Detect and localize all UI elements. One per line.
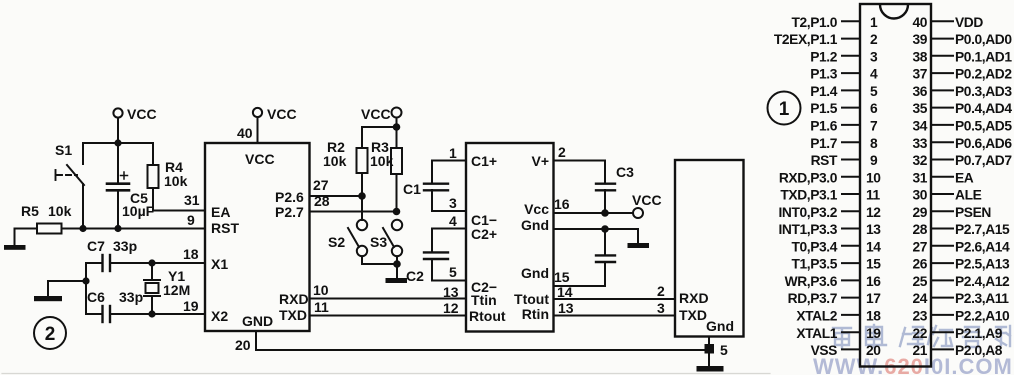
IC2 pin 22 number: [912, 326, 927, 341]
svg-text:5: 5: [720, 342, 728, 358]
IC2 pin 37 name P0.2,AD2: [955, 67, 1012, 82]
svg-text:10: 10: [866, 170, 881, 185]
junction S3 ground: [393, 260, 401, 278]
IC2 pin 8 number: [870, 136, 878, 151]
junction C5/RST rail: [114, 225, 121, 232]
svg-text:15: 15: [866, 257, 881, 272]
IC2 pin 4 lead: [842, 72, 860, 74]
junction R2/P2.6: [358, 192, 366, 200]
svg-text:RST: RST: [811, 153, 838, 168]
IC2 pin 23 lead: [931, 314, 953, 316]
svg-text:28: 28: [314, 193, 330, 209]
connector DB9 box: [675, 160, 744, 337]
ground (MAX232): [628, 243, 650, 248]
svg-text:33p: 33p: [119, 289, 143, 305]
capacitor C6 33p: [86, 289, 143, 322]
svg-text:1: 1: [870, 15, 878, 30]
power VCC node (IC pin 40): [237, 106, 297, 143]
svg-text:9: 9: [187, 212, 195, 228]
wire RXD pin 10 to Ttin 13: [310, 282, 467, 300]
IC2 pin 6 lead: [842, 107, 860, 109]
IC2 pin 26 number: [912, 257, 927, 272]
wire C1- pin 3: [432, 195, 466, 211]
IC2 pin 11 number: [866, 188, 881, 203]
svg-text:Gnd: Gnd: [706, 318, 734, 334]
svg-text:13: 13: [558, 300, 574, 316]
svg-text:2: 2: [45, 324, 56, 345]
IC U1 8051 box: [205, 143, 310, 331]
watermark URL www.620I0I.com: [813, 354, 1013, 375]
svg-text:6: 6: [870, 101, 878, 116]
IC2 pin 18 lead: [842, 314, 860, 316]
wire Gnd pin 15: [554, 269, 606, 286]
resistor R3 10k: [370, 127, 402, 212]
svg-text:V+: V+: [531, 153, 549, 169]
svg-text:PSEN: PSEN: [955, 205, 991, 220]
IC2 pin 37 lead: [931, 72, 953, 74]
svg-text:11: 11: [866, 188, 881, 203]
resistor R5 10k: [21, 203, 72, 234]
IC2 pin 16 number: [866, 274, 881, 289]
svg-text:Gnd: Gnd: [521, 217, 549, 233]
svg-text:18: 18: [866, 309, 881, 324]
svg-text:Vcc: Vcc: [524, 201, 549, 217]
wire EA pin 31: [153, 192, 205, 211]
switch S3: [370, 220, 402, 264]
IC2 pin 39 lead: [931, 38, 953, 40]
wire Gnd: [554, 229, 639, 243]
IC2 pin 26 lead: [931, 262, 953, 264]
wire VCC rail to S1 and R4: [83, 142, 153, 144]
svg-text:P2.5,A13: P2.5,A13: [955, 257, 1010, 272]
IC2 pin 27 lead: [931, 245, 953, 247]
ground (S2/S3): [386, 278, 408, 283]
IC2 pin 10 lead: [842, 176, 860, 178]
svg-text:10µF: 10µF: [122, 203, 155, 219]
svg-text:25: 25: [912, 274, 927, 289]
svg-text:30: 30: [912, 188, 927, 203]
ground (R5): [4, 245, 26, 250]
IC2 pin 25 lead: [931, 279, 953, 281]
IC2 pin 23 name P2.2,A10: [955, 309, 1010, 324]
svg-text:28: 28: [912, 222, 927, 237]
junction S1/RST rail: [79, 225, 86, 232]
IC2 pin 9 lead: [842, 159, 860, 161]
svg-text:RD,P3.7: RD,P3.7: [788, 291, 838, 306]
svg-text:VSS: VSS: [811, 343, 838, 358]
svg-text:VCC: VCC: [361, 106, 391, 122]
node label circle 2: [34, 317, 66, 349]
IC2 pin 29 lead: [931, 210, 953, 212]
svg-text:XTAL2: XTAL2: [796, 309, 837, 324]
svg-text:7: 7: [870, 119, 878, 134]
svg-text:27: 27: [313, 177, 329, 193]
svg-text:14: 14: [557, 284, 573, 300]
IC2 pin 21 lead: [931, 348, 953, 350]
svg-text:T1,P3.5: T1,P3.5: [791, 257, 837, 272]
IC2 pin 20 number: [866, 343, 881, 358]
svg-text:R5: R5: [21, 203, 39, 219]
svg-text:C3: C3: [616, 164, 634, 180]
svg-text:1: 1: [449, 145, 457, 161]
svg-text:11: 11: [314, 299, 329, 315]
svg-text:40: 40: [237, 125, 253, 141]
svg-text:RST: RST: [211, 220, 239, 236]
svg-text:Ttin: Ttin: [471, 292, 497, 308]
svg-text:P0.6,AD6: P0.6,AD6: [955, 136, 1012, 151]
IC2 pin 8 name P1.7: [810, 136, 838, 151]
IC2 pin 35 number: [912, 101, 927, 116]
IC2 pin 3 lead: [842, 55, 860, 57]
IC2 pin 23 number: [912, 309, 927, 324]
power VCC node (pullups): [361, 106, 402, 127]
svg-text:15: 15: [554, 269, 570, 285]
svg-text:C7: C7: [87, 238, 105, 254]
svg-text:Rtin: Rtin: [522, 306, 549, 322]
scan edge artifact bottom: [2, 373, 770, 375]
svg-text:2: 2: [558, 144, 566, 160]
svg-text:P2.7: P2.7: [275, 204, 304, 220]
IC2 pin 15 number: [866, 257, 881, 272]
switch S1: [55, 142, 84, 228]
svg-text:TXD: TXD: [279, 307, 307, 323]
svg-text:17: 17: [866, 291, 881, 306]
IC2 pin 35 lead: [931, 107, 953, 109]
IC2 pin 30 name ALE: [955, 188, 982, 203]
svg-text:13: 13: [443, 284, 459, 300]
svg-text:C1: C1: [403, 181, 421, 197]
svg-text:33p: 33p: [113, 238, 137, 254]
svg-text:12: 12: [443, 300, 459, 316]
svg-text:WR,P3.6: WR,P3.6: [785, 274, 838, 289]
svg-text:GND: GND: [242, 313, 273, 329]
IC2 pin 3 name P1.2: [810, 49, 838, 64]
svg-text:23: 23: [912, 309, 927, 324]
IC2 pin 29 number: [912, 205, 927, 220]
IC2 pin 11 name TXD,P3.1: [780, 188, 837, 203]
svg-text:31: 31: [184, 192, 200, 208]
IC2 pin 1 number: [870, 15, 878, 30]
svg-text:21: 21: [912, 343, 927, 358]
svg-text:3: 3: [449, 195, 457, 211]
svg-text:C2: C2: [406, 268, 424, 284]
IC2 pin 31 lead: [931, 176, 953, 178]
IC2 pin 19 name XTAL1: [796, 326, 837, 341]
junction X1/crystal: [148, 259, 155, 266]
IC2 pin 39 number: [912, 32, 927, 47]
IC2 pin 24 number: [912, 291, 927, 306]
svg-text:P0.2,AD2: P0.2,AD2: [955, 67, 1012, 82]
ground (connector): [697, 366, 724, 372]
IC2 pin 2 lead: [842, 38, 860, 40]
svg-text:S3: S3: [370, 234, 387, 250]
power VCC node (MAX232): [632, 192, 662, 218]
wire P2.7 pin 28: [310, 193, 397, 212]
svg-text:29: 29: [912, 205, 927, 220]
IC2 pin 31 name EA: [955, 170, 974, 185]
IC2 pin 31 number: [912, 170, 927, 185]
svg-text:S1: S1: [55, 142, 72, 158]
svg-text:INT0,P3.2: INT0,P3.2: [778, 205, 837, 220]
wire Rtin 13 to connector TXD 3: [554, 300, 676, 316]
svg-text:P2.6: P2.6: [275, 189, 304, 205]
IC2 pin 6 number: [870, 101, 878, 116]
wire R5 to ground: [15, 229, 38, 247]
wire connector pin 5 ground: [709, 337, 728, 367]
node label circle 1: [768, 92, 801, 125]
IC2 pin 25 number: [912, 274, 927, 289]
svg-text:INT1,P3.3: INT1,P3.3: [778, 222, 837, 237]
wire C2+ pin 4: [432, 213, 466, 229]
svg-text:ALE: ALE: [955, 188, 982, 203]
svg-text:P2.6,A14: P2.6,A14: [955, 239, 1010, 254]
capacitor C5 10uF: [107, 143, 155, 228]
IC2 pin 19 number: [866, 326, 881, 341]
svg-text:5: 5: [870, 84, 878, 99]
IC2 pin 11 lead: [842, 193, 860, 195]
IC2 pin 28 name P2.7,A15: [955, 222, 1010, 237]
svg-text:P0.0,AD0: P0.0,AD0: [955, 32, 1012, 47]
IC2 pin 14 lead: [842, 245, 860, 247]
svg-text:T2,P1.0: T2,P1.0: [791, 15, 837, 30]
svg-text:P2.3,A11: P2.3,A11: [955, 291, 1009, 306]
svg-text:P0.7,AD7: P0.7,AD7: [955, 153, 1012, 168]
IC2 pin 7 lead: [842, 124, 860, 126]
capacitor C4: [596, 229, 615, 286]
IC2 pin 27 name P2.6,A14: [955, 239, 1010, 254]
IC2 pin 13 number: [866, 222, 881, 237]
IC2 pin 7 name P1.6: [810, 119, 838, 134]
IC2 pin 5 name P1.4: [810, 84, 838, 99]
IC2 pin 24 name P2.3,A11: [955, 291, 1009, 306]
IC2 pin 38 number: [912, 49, 927, 64]
IC2 pin 9 name RST: [811, 153, 838, 168]
svg-text:VCC: VCC: [245, 151, 275, 167]
svg-text:EA: EA: [955, 170, 974, 185]
svg-text:T2EX,P1.1: T2EX,P1.1: [774, 32, 838, 47]
svg-text:P2.0,A8: P2.0,A8: [955, 343, 1003, 358]
IC2 pin 33 number: [912, 136, 927, 151]
IC2 pin 36 lead: [931, 89, 953, 91]
svg-text:18: 18: [183, 246, 199, 262]
IC2 pin 28 number: [912, 222, 927, 237]
IC2 pin 10 name RXD,P3.0: [779, 170, 838, 185]
svg-text:35: 35: [912, 101, 927, 116]
svg-text:P0.4,AD4: P0.4,AD4: [955, 101, 1012, 116]
IC2 pin 21 number: [912, 343, 927, 358]
IC2 pin 16 lead: [842, 279, 860, 281]
svg-text:XTAL1: XTAL1: [796, 326, 837, 341]
svg-text:3: 3: [657, 300, 665, 316]
IC2 pin 22 name P2.1,A9: [955, 326, 1003, 341]
wire P2.6 pin 27: [310, 177, 363, 196]
IC2 pin 40 lead: [931, 20, 953, 22]
svg-text:P0.3,AD3: P0.3,AD3: [955, 84, 1012, 99]
switch S2: [328, 199, 367, 264]
watermark chinese characters (pseudo-glyphs): [833, 325, 1010, 348]
IC2 pin 17 name RD,P3.7: [788, 291, 838, 306]
svg-text:VDD: VDD: [955, 15, 983, 30]
wire V+ pin 2: [554, 144, 606, 161]
IC2 pin 17 number: [866, 291, 881, 306]
wire pullup top rail: [362, 127, 397, 148]
IC2 pin 39 name P0.0,AD0: [955, 32, 1012, 47]
svg-text:19: 19: [183, 298, 199, 314]
IC2 pin 19 lead: [842, 331, 860, 333]
svg-text:8: 8: [870, 136, 878, 151]
svg-text:Rtout: Rtout: [469, 308, 506, 324]
capacitor C2: [406, 229, 448, 285]
svg-text:33: 33: [912, 136, 927, 151]
junction Gnd/C4: [601, 225, 609, 233]
svg-text:32: 32: [912, 153, 927, 168]
IC2 pin 38 name P0.1,AD1: [955, 49, 1012, 64]
svg-text:P2.4,A12: P2.4,A12: [955, 274, 1010, 289]
svg-text:39: 39: [912, 32, 927, 47]
svg-text:37: 37: [912, 67, 927, 82]
junction pullup VCC: [393, 123, 401, 131]
IC2 pin 12 name INT0,P3.2: [778, 205, 837, 220]
IC2 pin 32 number: [912, 153, 927, 168]
IC2 pin 5 number: [870, 84, 878, 99]
wire TXD pin 11 to Rtout 12: [310, 299, 467, 316]
svg-text:P0.5,AD5: P0.5,AD5: [955, 119, 1012, 134]
IC2 pin 33 name P0.6,AD6: [955, 136, 1012, 151]
svg-text:P1.2: P1.2: [810, 49, 838, 64]
wire Ttout 14 to connector RXD 2: [554, 283, 676, 300]
svg-text:P2.7,A15: P2.7,A15: [955, 222, 1010, 237]
IC2 pin 15 lead: [842, 262, 860, 264]
IC2 pin 32 lead: [931, 159, 953, 161]
wire GND pin 20: [235, 331, 256, 353]
svg-text:P1.4: P1.4: [810, 84, 838, 99]
IC2 pin 20 lead: [842, 348, 860, 350]
svg-text:P1.5: P1.5: [810, 101, 838, 116]
junction crystal rail: [82, 277, 89, 284]
IC2 pin 2 name T2EX,P1.1: [774, 32, 838, 47]
svg-text:P1.3: P1.3: [810, 67, 838, 82]
IC2 pin 16 name WR,P3.6: [785, 274, 838, 289]
junction ground bus / pin 5: [705, 344, 715, 354]
IC2 pin 38 lead: [931, 55, 953, 57]
IC2 pin 21 name P2.0,A8: [955, 343, 1003, 358]
svg-text:12: 12: [866, 205, 881, 220]
IC2 pin 40 number: [912, 15, 927, 30]
IC2 pin 10 number: [866, 170, 881, 185]
IC2 pin 5 lead: [842, 89, 860, 91]
wire ground bus to connector pin 5: [256, 349, 709, 351]
svg-text:C6: C6: [87, 289, 105, 305]
svg-text:P2.1,A9: P2.1,A9: [955, 326, 1003, 341]
svg-text:38: 38: [912, 49, 927, 64]
svg-text:16: 16: [554, 196, 570, 212]
IC2 pin 18 number: [866, 309, 881, 324]
svg-text:20: 20: [866, 343, 881, 358]
svg-text:36: 36: [912, 84, 927, 99]
svg-text:10k: 10k: [323, 153, 347, 169]
IC2 pin 29 name PSEN: [955, 205, 991, 220]
svg-text:9: 9: [870, 153, 878, 168]
capacitor C3: [596, 161, 634, 214]
IC2 pin 35 name P0.4,AD4: [955, 101, 1012, 116]
capacitor C1: [403, 161, 448, 212]
IC2 pin 36 name P0.3,AD3: [955, 84, 1012, 99]
junction X2/crystal: [148, 310, 155, 317]
capacitor C7 33p: [86, 238, 137, 271]
resistor R2 10k: [323, 139, 368, 196]
svg-text:VCC: VCC: [267, 106, 297, 122]
IC2 pin 17 lead: [842, 297, 860, 299]
junction C3/Vcc: [601, 209, 609, 217]
IC2 pin 26 name P2.5,A13: [955, 257, 1010, 272]
svg-text:13: 13: [866, 222, 881, 237]
IC2 pin 37 number: [912, 67, 927, 82]
svg-text:22: 22: [912, 326, 927, 341]
svg-text:10: 10: [313, 282, 329, 298]
IC2 pin 1 name T2,P1.0: [791, 15, 837, 30]
wire Vcc pin 16: [554, 196, 634, 213]
svg-text:27: 27: [912, 239, 927, 254]
svg-text:10k: 10k: [48, 203, 72, 219]
svg-text:14: 14: [866, 239, 881, 254]
svg-text:Ttout: Ttout: [514, 291, 549, 307]
svg-text:VCC: VCC: [127, 106, 157, 122]
IC2 pin 15 name T1,P3.5: [791, 257, 837, 272]
svg-text:VCC: VCC: [632, 192, 662, 208]
IC2 pin 1 lead: [842, 20, 860, 22]
IC2 pin 13 lead: [842, 228, 860, 230]
wire crystal left rail: [48, 263, 86, 314]
IC2 DIP-40 package body: [860, 4, 931, 367]
IC2 pin 12 number: [866, 205, 881, 220]
svg-text:RXD: RXD: [279, 291, 309, 307]
IC2 pin 14 name T0,P3.4: [791, 239, 837, 254]
svg-text:P1.7: P1.7: [810, 136, 838, 151]
IC2 pin 20 name VSS: [811, 343, 838, 358]
power VCC node (reset): [113, 106, 156, 141]
svg-text:RXD,P3.0: RXD,P3.0: [779, 170, 838, 185]
wire C2- pin 5: [432, 264, 466, 281]
svg-text:4: 4: [449, 213, 457, 229]
svg-text:26: 26: [912, 257, 927, 272]
IC2 pin 30 number: [912, 188, 927, 203]
svg-text:P2.2,A10: P2.2,A10: [955, 309, 1010, 324]
ground (crystal): [34, 296, 62, 301]
IC2 pin 8 lead: [842, 141, 860, 143]
wire RST rail pin 9: [62, 212, 206, 229]
IC2 pin 34 number: [912, 119, 927, 134]
svg-text:40: 40: [912, 15, 927, 30]
IC2 pin 2 number: [870, 32, 878, 47]
IC2 pin 18 name XTAL2: [796, 309, 837, 324]
IC2 pin 27 number: [912, 239, 927, 254]
svg-text:3: 3: [870, 49, 878, 64]
svg-text:EA: EA: [211, 204, 230, 220]
svg-text:S2: S2: [328, 234, 345, 250]
IC2 pin 7 number: [870, 119, 878, 134]
svg-text:1: 1: [779, 99, 790, 120]
wire X2 pin 19: [111, 298, 206, 314]
svg-text:T0,P3.4: T0,P3.4: [791, 239, 837, 254]
IC2 pin 32 name P0.7,AD7: [955, 153, 1012, 168]
IC2 pin 34 name P0.5,AD5: [955, 119, 1012, 134]
IC2 pin 14 number: [866, 239, 881, 254]
IC2 pin 36 number: [912, 84, 927, 99]
IC2 pin 12 lead: [842, 210, 860, 212]
svg-text:C1+: C1+: [471, 153, 497, 169]
svg-text:16: 16: [866, 274, 881, 289]
IC2 pin 6 name P1.5: [810, 101, 838, 116]
